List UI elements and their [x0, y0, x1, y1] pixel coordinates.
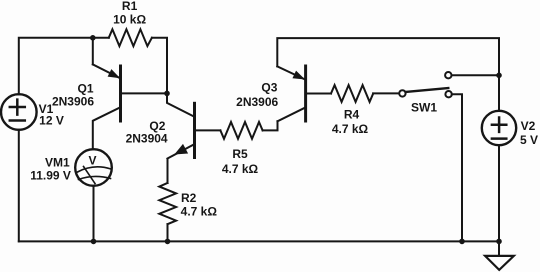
- Q3 emitter arrow: [277, 66, 304, 79]
- svg-text:V2: V2: [521, 119, 536, 133]
- wire: R1 right to node B: [152, 38, 167, 94]
- svg-text:R2: R2: [181, 191, 197, 205]
- Q2 emitter arrow: [175, 145, 187, 154]
- wire: R2 bottom to rail: [167, 224, 169, 241]
- svg-text:VM1: VM1: [45, 155, 70, 169]
- Q1 base wire: [121, 92, 168, 94]
- Q2 base wire: [195, 129, 221, 131]
- svg-text:R5: R5: [232, 147, 248, 161]
- svg-text:11.99 V: 11.99 V: [30, 169, 71, 183]
- Q1 emitter arrow: [93, 64, 120, 77]
- node B junction: [164, 91, 170, 97]
- transistor Q2 bar: [193, 103, 196, 157]
- source V2: [482, 111, 516, 145]
- voltmeter VM1: [75, 149, 112, 186]
- wire: SW1 top throw to node C: [452, 74, 500, 76]
- wire: top rail to Q3 emitter: [277, 38, 499, 111]
- transistor Q1 bar: [119, 66, 122, 121]
- junction VM1-rail: [91, 239, 97, 245]
- ground: [485, 241, 514, 270]
- junction V2-rail: [496, 239, 502, 245]
- resistor R1: [109, 29, 152, 46]
- svg-text:Q1: Q1: [77, 81, 93, 95]
- svg-text:2N3904: 2N3904: [126, 132, 168, 146]
- svg-text:R1: R1: [122, 0, 138, 13]
- transistor Q3 bar: [304, 66, 307, 121]
- wire: SW1 bottom throw down to rail: [452, 94, 462, 241]
- switch SW1: [399, 72, 452, 97]
- svg-text:Q3: Q3: [261, 80, 277, 94]
- wire: R4 to SW1 pole: [373, 92, 399, 94]
- svg-text:2N3906: 2N3906: [52, 95, 94, 109]
- svg-text:5 V: 5 V: [520, 133, 538, 147]
- junction SW1-rail: [459, 239, 465, 245]
- svg-text:10 kΩ: 10 kΩ: [113, 12, 146, 26]
- Q3 collector: [278, 107, 306, 121]
- resistor R2: [159, 183, 176, 224]
- Q2 emitter wire: [167, 144, 194, 158]
- Q2 collector wire: [167, 93, 195, 116]
- node A junction: [90, 35, 96, 41]
- svg-text:4.7 kΩ: 4.7 kΩ: [181, 205, 218, 219]
- node C junction: [496, 73, 502, 79]
- junction R2-rail: [165, 239, 171, 245]
- resistor R4: [331, 85, 373, 102]
- wire: V1 top to node A: [19, 38, 93, 95]
- svg-text:2N3906: 2N3906: [236, 95, 278, 109]
- wire: R5 right to Q3 collector: [263, 121, 278, 130]
- source V1: [1, 94, 37, 130]
- svg-text:SW1: SW1: [411, 101, 437, 115]
- wire: node A to R1 left: [93, 37, 109, 39]
- svg-text:4.7 kΩ: 4.7 kΩ: [222, 162, 259, 176]
- wire: V1 bottom to ground rail: [18, 130, 20, 242]
- wire: Q2 emitter to R2: [167, 159, 169, 183]
- svg-text:V: V: [88, 153, 96, 167]
- wire: VM1 bottom to ground rail: [93, 186, 95, 242]
- svg-text:R4: R4: [344, 108, 360, 122]
- Q1 collector: [93, 107, 121, 149]
- Q3 base wire: [306, 93, 331, 95]
- svg-text:4.7 kΩ: 4.7 kΩ: [332, 122, 369, 136]
- resistor R5: [220, 122, 262, 139]
- wire: V2 bottom to rail: [498, 145, 500, 241]
- Q1 emitter wire: [92, 38, 94, 65]
- wire: bottom ground rail: [19, 240, 499, 242]
- svg-text:12 V: 12 V: [39, 114, 64, 128]
